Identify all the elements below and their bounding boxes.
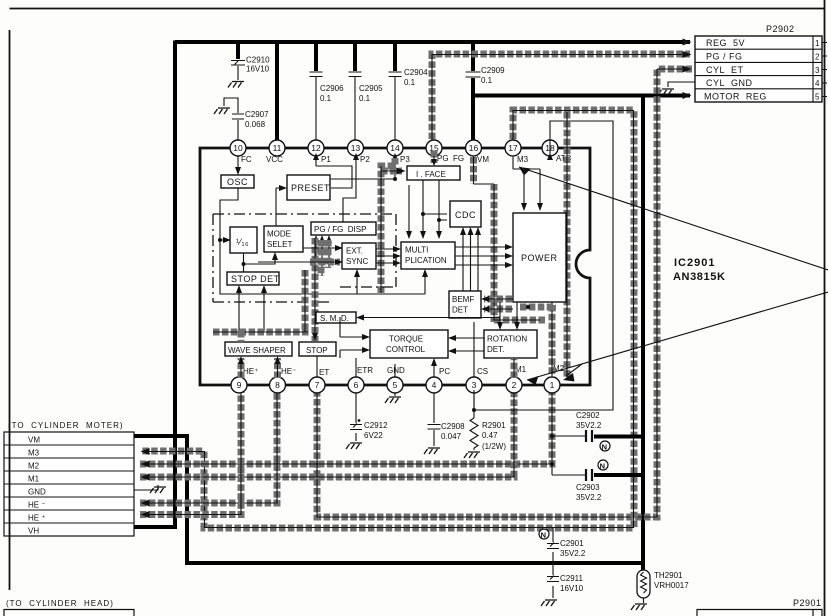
capacitor C2901 xyxy=(539,528,586,563)
svg-text:6V22: 6V22 xyxy=(364,431,383,440)
capacitor C2905 xyxy=(349,42,384,148)
svg-text:11: 11 xyxy=(273,143,282,153)
svg-text:P3: P3 xyxy=(400,155,410,164)
svg-text:OSC: OSC xyxy=(227,177,248,187)
svg-text:17: 17 xyxy=(508,143,518,153)
P3 wire xyxy=(331,156,395,179)
wire: VCC pin 11 from bus xyxy=(275,42,279,148)
block ROTATION DET xyxy=(484,330,537,358)
svg-text:M2: M2 xyxy=(28,462,40,471)
svg-text:16V10: 16V10 xyxy=(246,65,270,74)
EXT SYNC to MULTI arrows xyxy=(376,249,398,263)
POWER bottom to ROTATION arrows xyxy=(500,302,517,327)
svg-text:SELET: SELET xyxy=(267,240,292,249)
wire: VM net thick (table VM row, down, along bottom, to right column) xyxy=(134,436,643,563)
svg-text:CDC: CDC xyxy=(455,210,476,220)
svg-text:(1/2W): (1/2W) xyxy=(482,442,506,451)
connector P2901 (partial) xyxy=(697,598,822,616)
P2 arrow xyxy=(343,156,356,222)
connector to cylinder motor xyxy=(4,421,134,536)
svg-text:FC: FC xyxy=(241,155,252,164)
svg-text:VH: VH xyxy=(28,527,39,536)
svg-text:PC: PC xyxy=(439,367,450,376)
block MODE SELET xyxy=(264,226,303,252)
capacitor C2902 xyxy=(550,411,643,466)
svg-text:PG / FG DISP: PG / FG DISP xyxy=(314,225,366,234)
svg-text:0.1: 0.1 xyxy=(481,76,493,85)
thermistor TH2901 xyxy=(631,570,689,610)
svg-text:IC2901: IC2901 xyxy=(674,257,715,269)
block OSC xyxy=(221,175,254,188)
wire: MOTOR REG vertical right column xyxy=(641,95,645,571)
svg-text:3: 3 xyxy=(472,380,477,390)
leader arrow to pins 2 and 1 xyxy=(527,292,828,380)
svg-text:0.047: 0.047 xyxy=(441,432,462,441)
wire: PG/FG highlighted path pin15 to P2902 row2 xyxy=(432,54,690,148)
svg-text:16V10: 16V10 xyxy=(560,584,584,593)
block 1/16 xyxy=(230,227,257,253)
wire: GND row to ground xyxy=(134,485,166,493)
IC2901 body xyxy=(200,148,590,385)
svg-text:MODE: MODE xyxy=(267,230,291,239)
svg-text:CS: CS xyxy=(477,367,488,376)
svg-text:¹⁄₁₆: ¹⁄₁₆ xyxy=(236,237,249,247)
svg-text:R2901: R2901 xyxy=(482,421,506,430)
wire: MOTOR REG horizontal into P2902 row 5 xyxy=(473,94,690,98)
svg-text:0.1: 0.1 xyxy=(320,94,332,103)
svg-text:N: N xyxy=(600,461,605,470)
OSC bottom wire xyxy=(220,188,425,294)
PRESET left input xyxy=(276,188,284,226)
svg-text:MOTOR REG: MOTOR REG xyxy=(704,92,767,102)
svg-text:6: 6 xyxy=(354,380,359,390)
block PG / FG DISP xyxy=(311,222,376,235)
svg-text:14: 14 xyxy=(390,143,400,153)
highlighted cluster under PG/FG DISP xyxy=(213,238,328,341)
svg-text:5: 5 xyxy=(393,380,398,390)
block POWER xyxy=(513,213,566,302)
svg-text:STOP DET: STOP DET xyxy=(231,274,280,284)
ground near CYL GND row xyxy=(658,82,695,95)
resistor R2901 xyxy=(464,393,506,458)
svg-text:GND: GND xyxy=(28,488,46,497)
svg-text:0.1: 0.1 xyxy=(359,94,371,103)
svg-text:9: 9 xyxy=(237,380,242,390)
svg-text:0.47: 0.47 xyxy=(482,431,498,440)
svg-text:CYL ET: CYL ET xyxy=(706,65,744,75)
capacitor C2909 xyxy=(466,66,506,85)
svg-text:3: 3 xyxy=(815,66,820,75)
svg-text:DET.: DET. xyxy=(487,345,504,354)
svg-text:C2905: C2905 xyxy=(359,84,383,93)
PG FG pin 15 into I.FACE xyxy=(431,151,438,163)
IC bottom pins 9-1 xyxy=(231,377,560,393)
wire: M1 row to pin 2 xyxy=(140,390,514,477)
svg-text:1: 1 xyxy=(815,39,820,48)
svg-text:SYNC: SYNC xyxy=(346,257,368,266)
pin 5 internal stub xyxy=(394,364,396,377)
svg-text:VCC: VCC xyxy=(266,155,283,164)
svg-text:MULTI: MULTI xyxy=(405,246,428,255)
svg-text:REG 5V: REG 5V xyxy=(706,38,745,48)
block WAVE SHAPER xyxy=(225,342,292,356)
block PRESET xyxy=(287,175,330,200)
svg-text:N: N xyxy=(602,442,607,451)
block BEMF DET xyxy=(449,291,481,318)
svg-text:P2: P2 xyxy=(360,155,370,164)
pin 3 internal stub xyxy=(473,322,475,377)
svg-text:M1: M1 xyxy=(28,475,40,484)
connector P2902 xyxy=(695,24,827,102)
svg-text:STOP: STOP xyxy=(306,346,328,355)
svg-text:35V2.2: 35V2.2 xyxy=(576,421,602,430)
svg-text:HE ⁻: HE ⁻ xyxy=(28,501,46,510)
svg-text:HE⁻: HE⁻ xyxy=(281,367,296,376)
svg-text:I . FACE: I . FACE xyxy=(416,170,446,179)
wire: module left border (VH net) xyxy=(173,41,177,528)
block EXT SYNC xyxy=(342,243,376,269)
svg-text:0.068: 0.068 xyxy=(245,120,266,129)
wire: HE- row to pin 8 xyxy=(140,390,277,503)
svg-text:HE ⁺: HE ⁺ xyxy=(28,514,46,523)
P1 arrow xyxy=(316,156,352,188)
block MULTIPLICATION xyxy=(401,242,455,269)
svg-text:HE⁺: HE⁺ xyxy=(243,367,258,376)
svg-text:PRESET: PRESET xyxy=(291,183,330,193)
capacitor C2912 xyxy=(346,393,388,449)
svg-text:N: N xyxy=(541,530,546,539)
svg-text:GND: GND xyxy=(387,366,405,375)
block CDC xyxy=(450,201,481,227)
arrows up into EXT SYNC and MULTI from bottom rail xyxy=(357,272,425,294)
svg-text:(TO CYLINDER MOTER): (TO CYLINDER MOTER) xyxy=(8,421,124,430)
svg-text:10: 10 xyxy=(233,143,243,153)
svg-text:BEMF: BEMF xyxy=(452,295,474,304)
block TORQUE CONTROL xyxy=(370,330,448,358)
svg-text:2: 2 xyxy=(815,53,820,62)
svg-text:0.1: 0.1 xyxy=(404,78,416,87)
svg-text:7: 7 xyxy=(315,380,320,390)
svg-text:5: 5 xyxy=(815,93,820,102)
pin 6 to TORQUE bottom xyxy=(355,358,357,377)
capacitor C2903 xyxy=(552,460,643,502)
svg-text:ETR: ETR xyxy=(357,366,373,375)
MODE SELET to EXT SYNC xyxy=(303,247,340,249)
svg-text:4: 4 xyxy=(815,79,820,88)
svg-text:VRH0017: VRH0017 xyxy=(654,581,689,590)
svg-text:P1: P1 xyxy=(321,155,331,164)
svg-text:TORQUE: TORQUE xyxy=(389,335,423,344)
svg-text:AN3815K: AN3815K xyxy=(673,271,726,283)
top pin labels xyxy=(241,154,572,164)
svg-text:13: 13 xyxy=(351,143,361,153)
wire: CYL ET highlighted path P2902 row3 to pin 7 xyxy=(317,69,692,517)
svg-text:S. M. D.: S. M. D. xyxy=(320,314,349,323)
BEMF to CDC vertical arrows xyxy=(463,230,478,291)
svg-text:PLICATION: PLICATION xyxy=(405,256,447,265)
svg-text:C2910: C2910 xyxy=(246,56,270,65)
wire: HE+ row to pin 9 xyxy=(140,390,241,515)
block STOP DET xyxy=(227,272,279,285)
pin 2 to ROTATION bottom xyxy=(511,358,518,378)
wire: M2 row to pin 1 column xyxy=(140,390,552,475)
svg-text:16: 16 xyxy=(469,143,479,153)
pin 1 internal highlighted column xyxy=(549,305,556,377)
internal highlighted column inside IC right edge xyxy=(564,112,571,378)
svg-text:ET: ET xyxy=(319,368,329,377)
svg-text:C2902: C2902 xyxy=(576,411,600,420)
svg-text:(TO CYLINDER HEAD): (TO CYLINDER HEAD) xyxy=(6,599,114,608)
svg-text:VM: VM xyxy=(477,155,489,164)
capacitor C2907 xyxy=(214,98,269,148)
arrows into PG/FG DISP bottom xyxy=(316,238,329,276)
svg-text:C2901: C2901 xyxy=(560,539,584,548)
svg-text:DET: DET xyxy=(452,306,468,315)
svg-text:P2902: P2902 xyxy=(766,24,795,34)
ATC wire pin18 to CS node xyxy=(474,121,613,410)
svg-text:2: 2 xyxy=(512,380,517,390)
bottom pin labels xyxy=(243,364,565,377)
svg-text:P2901: P2901 xyxy=(793,598,822,608)
svg-text:M3: M3 xyxy=(517,155,529,164)
wire: pin 16 VM vertical from bus through C2909 xyxy=(471,42,475,148)
svg-text:12: 12 xyxy=(311,143,321,153)
svg-text:M3: M3 xyxy=(28,449,40,458)
svg-text:C2907: C2907 xyxy=(245,110,269,119)
ground pin 5 xyxy=(385,393,401,403)
arrows up into STOP DET xyxy=(239,288,264,331)
capacitor C2911 xyxy=(541,563,584,606)
svg-text:VM: VM xyxy=(28,436,40,445)
svg-text:PG / FG: PG / FG xyxy=(706,52,743,62)
svg-text:EXT.: EXT. xyxy=(346,247,363,256)
svg-text:C2909: C2909 xyxy=(481,66,505,75)
svg-text:POWER: POWER xyxy=(521,253,558,263)
svg-text:8: 8 xyxy=(275,380,280,390)
svg-text:C2903: C2903 xyxy=(576,483,600,492)
svg-text:C2908: C2908 xyxy=(441,422,465,431)
svg-text:C2904: C2904 xyxy=(404,68,428,77)
connector to cylinder head (partial) xyxy=(4,599,134,616)
I.FACE outputs down to MULTI / CDC xyxy=(409,180,439,238)
svg-text:4: 4 xyxy=(432,380,437,390)
svg-text:C2906: C2906 xyxy=(320,84,344,93)
inputs to TORQUE CONTROL left xyxy=(340,317,367,358)
svg-text:C2912: C2912 xyxy=(364,421,388,430)
dashed function box xyxy=(213,214,396,302)
svg-text:WAVE SHAPER: WAVE SHAPER xyxy=(228,346,286,355)
ROTATION to TORQUE arrows xyxy=(451,338,484,351)
P3 highlighted branch into I.FACE xyxy=(381,158,402,293)
svg-text:PG FG: PG FG xyxy=(437,154,464,163)
POWER to BEMF arrows xyxy=(484,299,512,309)
svg-text:1: 1 xyxy=(550,380,555,390)
svg-text:CONTROL: CONTROL xyxy=(386,345,426,354)
svg-text:ROTATION: ROTATION xyxy=(487,335,527,344)
wire: REG 5V top bus xyxy=(175,40,690,44)
IC top pins 10-18 xyxy=(230,140,558,156)
MULTI to POWER arrows xyxy=(455,247,510,265)
pin 16 VM internal xyxy=(470,157,477,184)
pin 17 internal wires to POWER xyxy=(513,157,540,205)
capacitor C2910 xyxy=(228,42,270,88)
wire: M3 highlighted path pin17 to table M3 row xyxy=(140,110,634,528)
block S.M.D. xyxy=(316,312,356,323)
pin 4 to TORQUE bottom xyxy=(433,362,435,377)
wire: VH row to left border xyxy=(134,525,177,529)
svg-text:CYL GND: CYL GND xyxy=(706,78,753,88)
svg-text:TH2901: TH2901 xyxy=(654,571,683,580)
capacitor C2906 xyxy=(310,42,345,148)
capacitor C2908 xyxy=(424,393,465,454)
internal highlighted loop right of POWER xyxy=(494,184,545,322)
block I.FACE xyxy=(407,166,460,180)
svg-text:35V2.2: 35V2.2 xyxy=(576,493,602,502)
leader arrow to pin 17 xyxy=(519,167,828,270)
block STOP xyxy=(299,342,336,356)
svg-text:35V2.2: 35V2.2 xyxy=(560,549,586,558)
capacitor C2904 xyxy=(389,42,429,148)
1/16 bottom to STOP DET / MODE SELET xyxy=(244,253,276,272)
pin 7 to STOP bottom xyxy=(316,356,318,377)
svg-text:C2911: C2911 xyxy=(560,574,584,583)
pins 9,8 arrows into WAVE SHAPER xyxy=(241,331,278,378)
